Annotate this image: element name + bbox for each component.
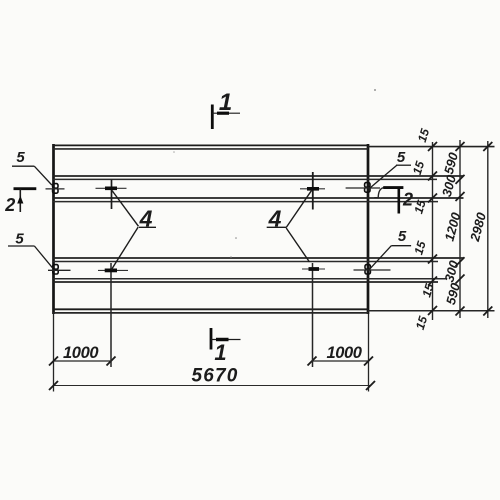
svg-text:1: 1: [219, 89, 232, 116]
svg-text:5: 5: [15, 230, 24, 247]
svg-text:2: 2: [402, 190, 413, 210]
svg-text:5: 5: [397, 149, 406, 166]
svg-text:1000: 1000: [63, 344, 99, 362]
svg-text:2: 2: [4, 195, 15, 215]
svg-text:1: 1: [214, 340, 226, 365]
svg-text:1000: 1000: [326, 344, 362, 362]
svg-text:5: 5: [398, 228, 407, 245]
svg-text:5: 5: [16, 149, 25, 166]
svg-text:5670: 5670: [191, 366, 238, 387]
